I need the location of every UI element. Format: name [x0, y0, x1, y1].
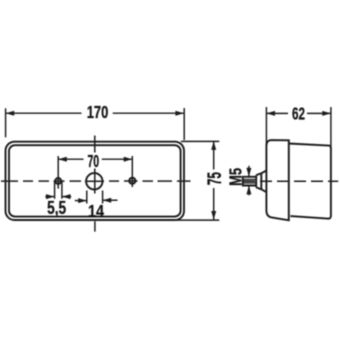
svg-text:75: 75 [205, 172, 225, 185]
svg-text:5,5: 5,5 [47, 198, 66, 218]
svg-text:170: 170 [87, 103, 109, 123]
svg-text:70: 70 [87, 152, 99, 172]
svg-text:62: 62 [292, 104, 305, 124]
svg-text:14: 14 [88, 201, 104, 221]
svg-text:M5: M5 [226, 168, 246, 186]
